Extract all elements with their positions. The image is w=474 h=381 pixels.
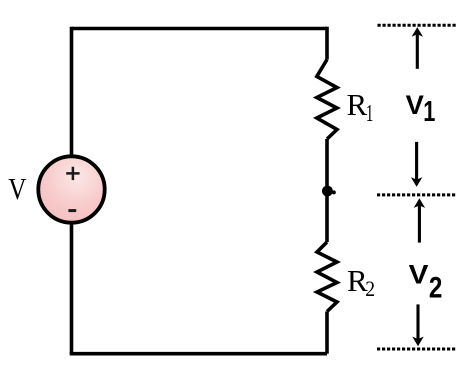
wire bottom: [70, 352, 327, 356]
voltage source V circle: [38, 156, 104, 222]
svg-text:V: V: [406, 90, 424, 120]
minus sign of source: [68, 209, 76, 212]
resistor R1: [317, 60, 337, 140]
arrow up V2 top: [414, 198, 425, 242]
wire left lower: [70, 224, 74, 354]
wire right between node and R2: [325, 191, 329, 242]
node dot nub: [332, 190, 336, 194]
arrow down V2 bottom: [412, 304, 423, 346]
node junction dot: [322, 186, 333, 197]
wire right between R1 and node: [325, 139, 329, 191]
dotted line top: [378, 24, 458, 27]
plus sign of source: [66, 167, 79, 180]
wire left upper: [70, 27, 74, 156]
dotted line bottom: [377, 348, 457, 351]
resistor R2: [317, 242, 337, 312]
svg-text:V: V: [409, 260, 429, 289]
wire right upper: [325, 27, 329, 60]
svg-text:1: 1: [366, 101, 373, 127]
svg-text:2: 2: [365, 276, 375, 301]
arrow up V1 top: [412, 27, 423, 69]
svg-text:R: R: [347, 87, 368, 122]
wire right lower: [325, 312, 329, 354]
arrow down V1 bottom: [411, 142, 422, 187]
wire top: [72, 27, 328, 31]
dotted line middle: [377, 193, 456, 196]
svg-text:2: 2: [429, 271, 443, 304]
svg-text:1: 1: [423, 96, 435, 128]
svg-text:V: V: [8, 173, 26, 207]
